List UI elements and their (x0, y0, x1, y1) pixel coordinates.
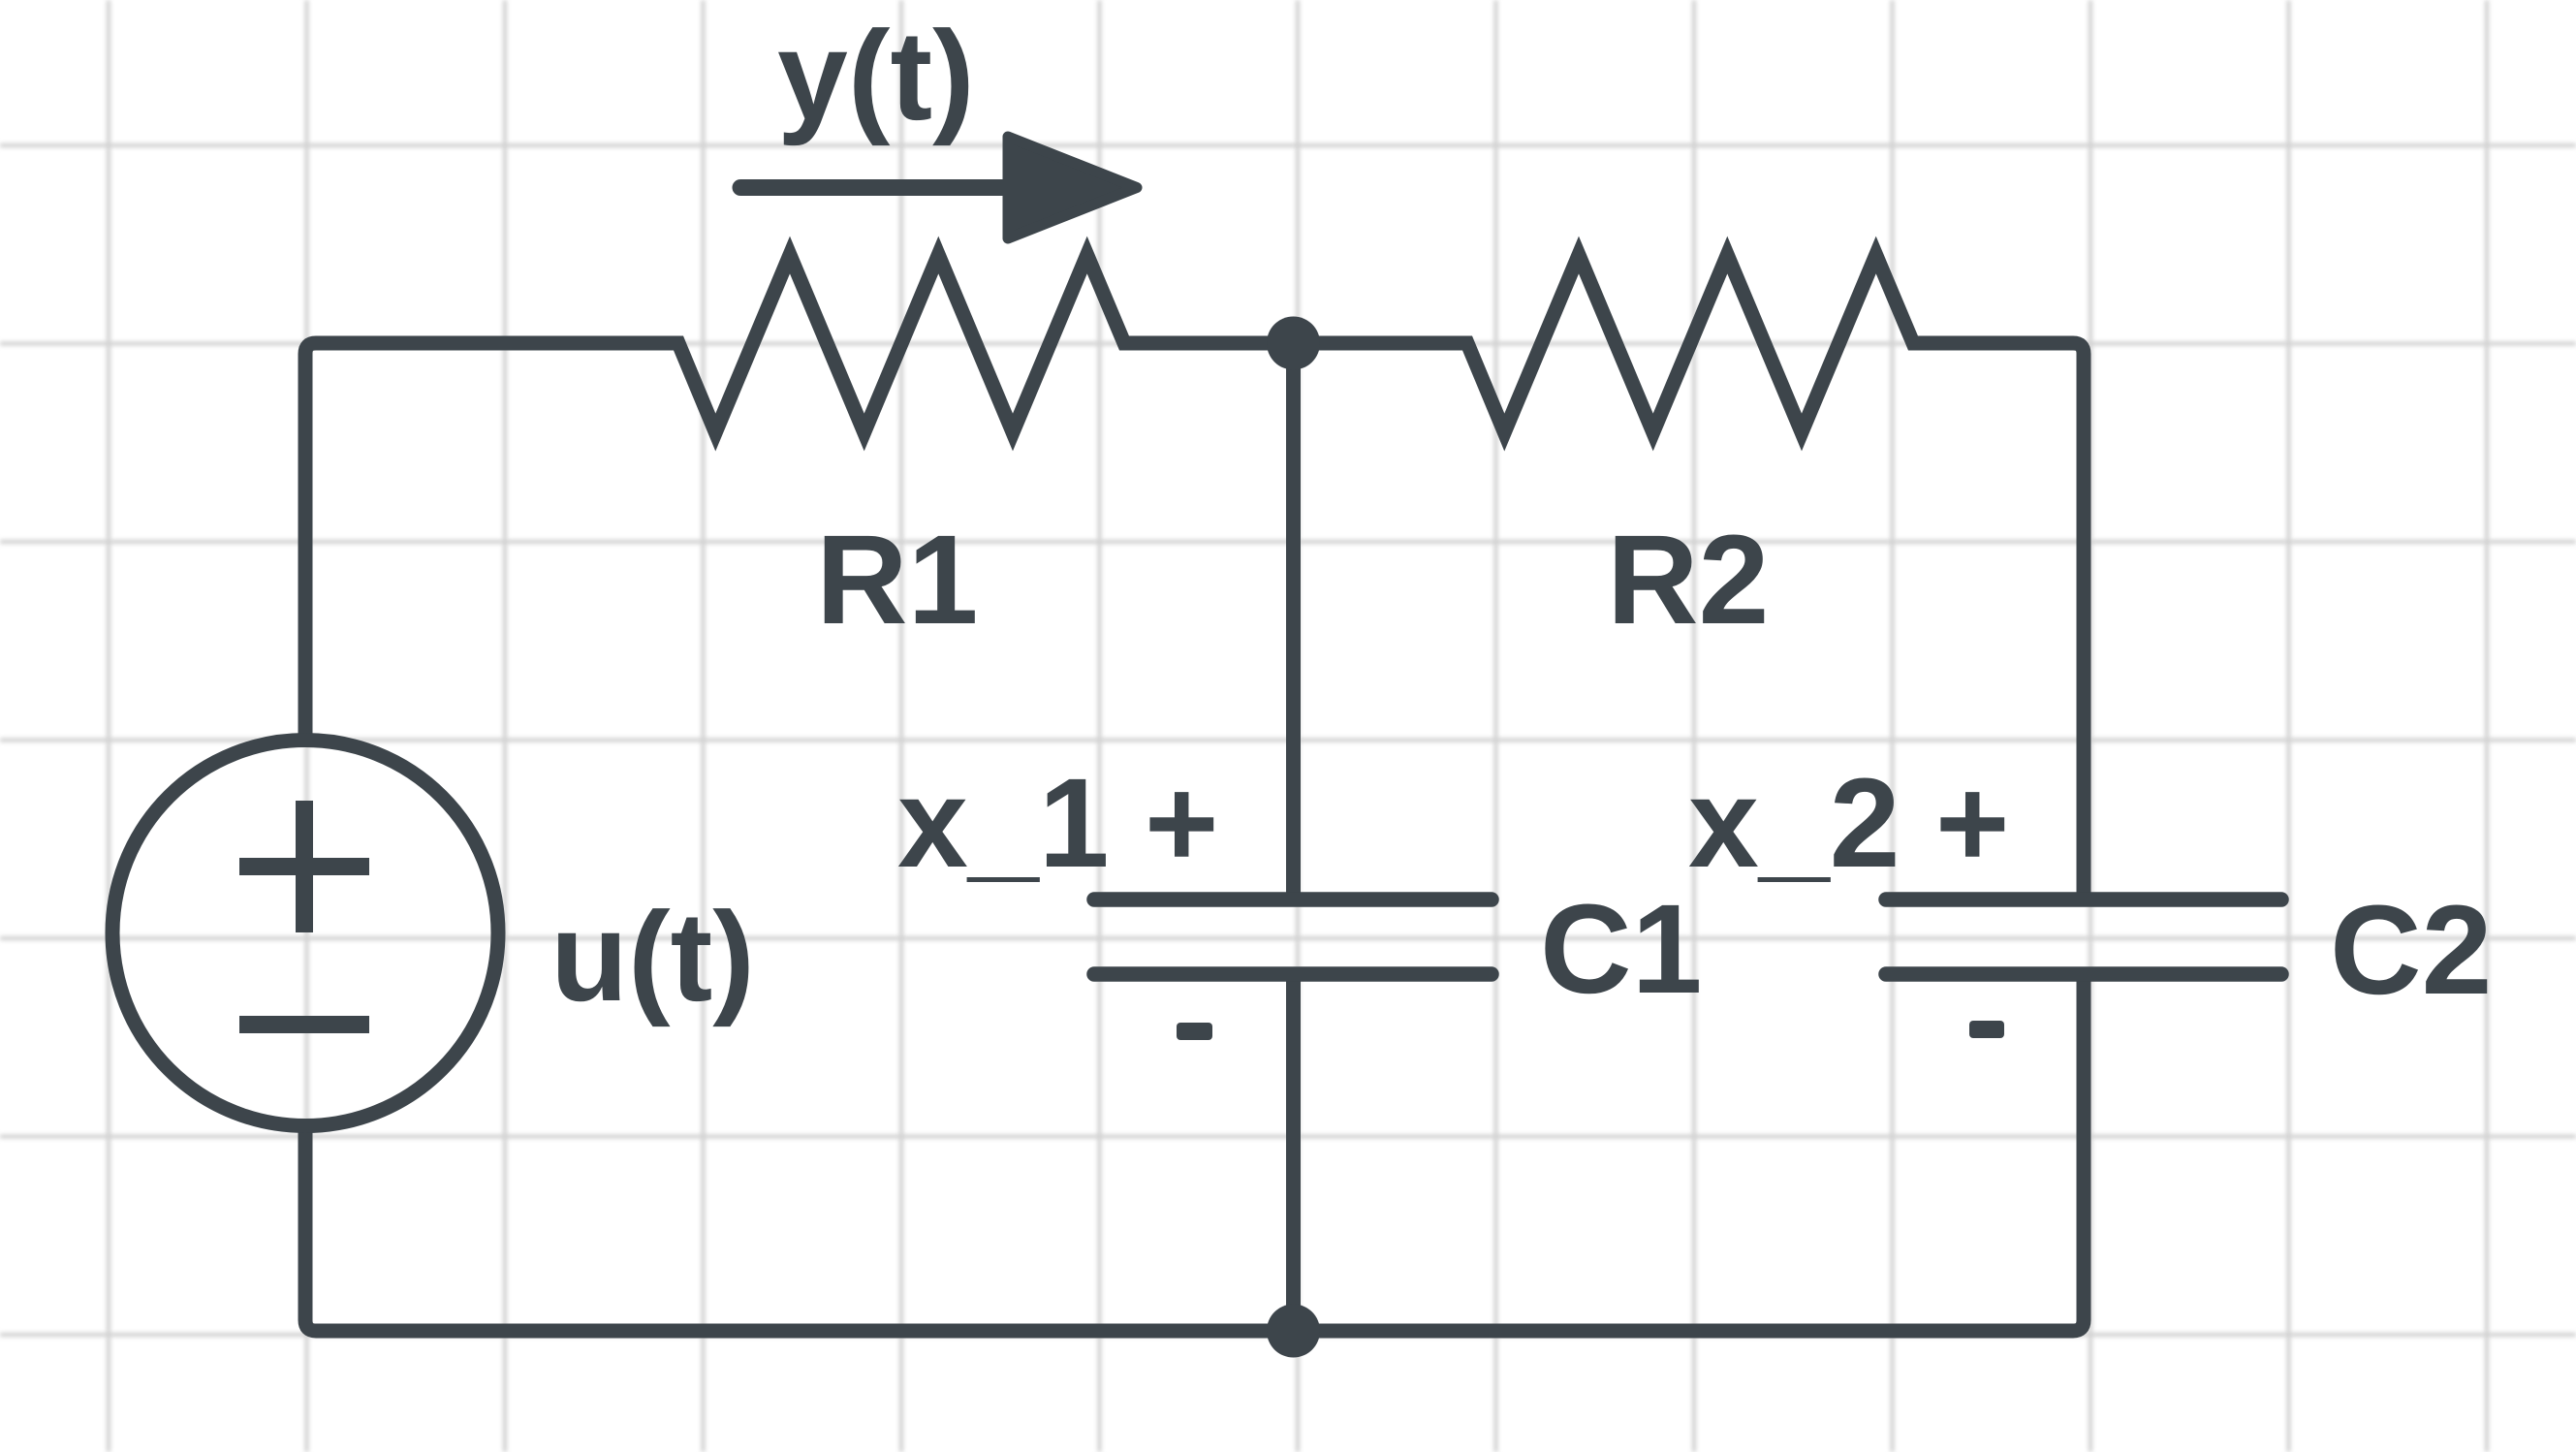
svg-text:C1: C1 (1540, 877, 1702, 1020)
voltage source plus sign (239, 801, 369, 932)
svg-text:x_2 +: x_2 + (1688, 751, 2009, 894)
wire C1 branch upper (1286, 343, 1301, 893)
svg-text:C2: C2 (2330, 878, 2492, 1021)
capacitor C1 bottom plate (1094, 966, 1492, 982)
wire top rail with resistor R1 and resistor R2 zigzags, left drop to source, right drop to C2 (305, 255, 2084, 893)
svg-text:R2: R2 (1607, 508, 1769, 650)
capacitor C1 top plate (1094, 892, 1492, 907)
voltage source minus sign (239, 1016, 369, 1033)
voltage source U circle (112, 741, 498, 1126)
wire C1 branch lower (1286, 981, 1301, 1331)
svg-text:x_1 +: x_1 + (897, 751, 1218, 894)
wire bottom rail: C2 bottom to bottom-left corner up to source (305, 981, 2084, 1331)
capacitor C2 top plate (1886, 892, 2281, 907)
label minus of C1 (1177, 1023, 1212, 1040)
svg-text:u(t): u(t) (550, 885, 755, 1027)
label minus of C2 (1969, 1021, 2004, 1038)
svg-text:R1: R1 (816, 508, 978, 650)
node A junction dot top (1267, 317, 1320, 370)
svg-text:y(t): y(t) (777, 4, 975, 146)
capacitor C2 bottom plate (1886, 966, 2281, 982)
node B junction dot bottom (1267, 1305, 1320, 1358)
current arrow y(t) (740, 137, 1137, 238)
